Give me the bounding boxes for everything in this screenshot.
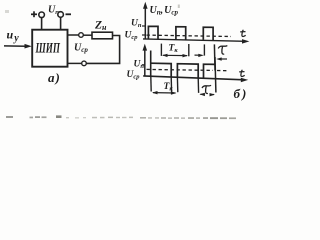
dim arrow left toward tau upper — [216, 57, 227, 60]
dim tick tau left upper — [203, 44, 205, 55]
dim tick Tк left — [160, 44, 162, 56]
dim tick Tк right — [188, 44, 190, 56]
wire stem right terminal — [60, 17, 62, 30]
dashed Uср level bottom plot — [147, 69, 214, 70]
minus terminal label — [66, 13, 72, 15]
wire output top — [68, 34, 79, 36]
level tick Uп bottom — [142, 64, 145, 66]
plus terminal label — [31, 11, 37, 17]
dim tick tau right upper (long, crosses pulse) — [213, 44, 216, 70]
dim arrows Tк lower — [152, 91, 176, 95]
pulse 2 top plot — [176, 27, 186, 40]
block ШИП (PWM converter) — [32, 30, 67, 67]
pulse 3 fall extended (crosses baseline, dim tick) — [214, 57, 217, 93]
dim tick p1 rise ext — [150, 76, 152, 91]
y axis bottom plot with arrow — [143, 44, 148, 76]
wire stem left terminal — [41, 18, 43, 31]
pulse 2 bottom plot — [177, 64, 198, 78]
wire to load — [83, 34, 92, 36]
dashed Uср level top plot — [147, 35, 232, 36]
wire output bottom — [68, 62, 82, 64]
dim tick p2 rise ext — [176, 77, 178, 92]
dim tick p2 fall ext — [197, 78, 199, 93]
dim tick p1 fall ext — [170, 77, 172, 92]
pulse 1 bottom plot (rise extended up) — [150, 51, 152, 77]
label tau upper — [218, 46, 227, 55]
dim arrows Tк upper — [162, 54, 188, 58]
level tick Uср — [142, 34, 145, 36]
level tick Uп — [142, 25, 145, 27]
svg-text:а): а) — [48, 70, 60, 85]
dim arrows tau lower — [199, 93, 215, 97]
dim arrow to tau upper — [195, 54, 204, 57]
terminal circle right Uп — [58, 12, 64, 18]
label t top plot — [240, 30, 245, 37]
input arrow wire — [4, 44, 32, 49]
dashed continuation right of pulse3 — [217, 70, 228, 72]
svg-text:б): б) — [234, 86, 247, 101]
pulse 1 top plot — [148, 26, 158, 39]
pulse 3 top plot — [203, 27, 213, 40]
label t bottom plot — [239, 70, 244, 77]
terminal circle output bottom — [82, 61, 87, 66]
terminal circle output top — [79, 33, 84, 38]
noise dot — [5, 10, 9, 13]
svg-text:ШИП: ШИП — [35, 41, 61, 57]
wire load right + down + bottom — [86, 36, 119, 64]
t axis top plot — [143, 39, 249, 44]
terminal circle left Uп — [39, 12, 45, 18]
caption remnants (cut off at bottom) — [6, 115, 236, 119]
load Zн rectangle — [92, 32, 113, 39]
y axis top plot — [143, 2, 148, 40]
label tau lower — [202, 85, 211, 93]
t axis bottom plot — [143, 76, 248, 82]
pulse 3 bottom plot — [204, 64, 215, 78]
